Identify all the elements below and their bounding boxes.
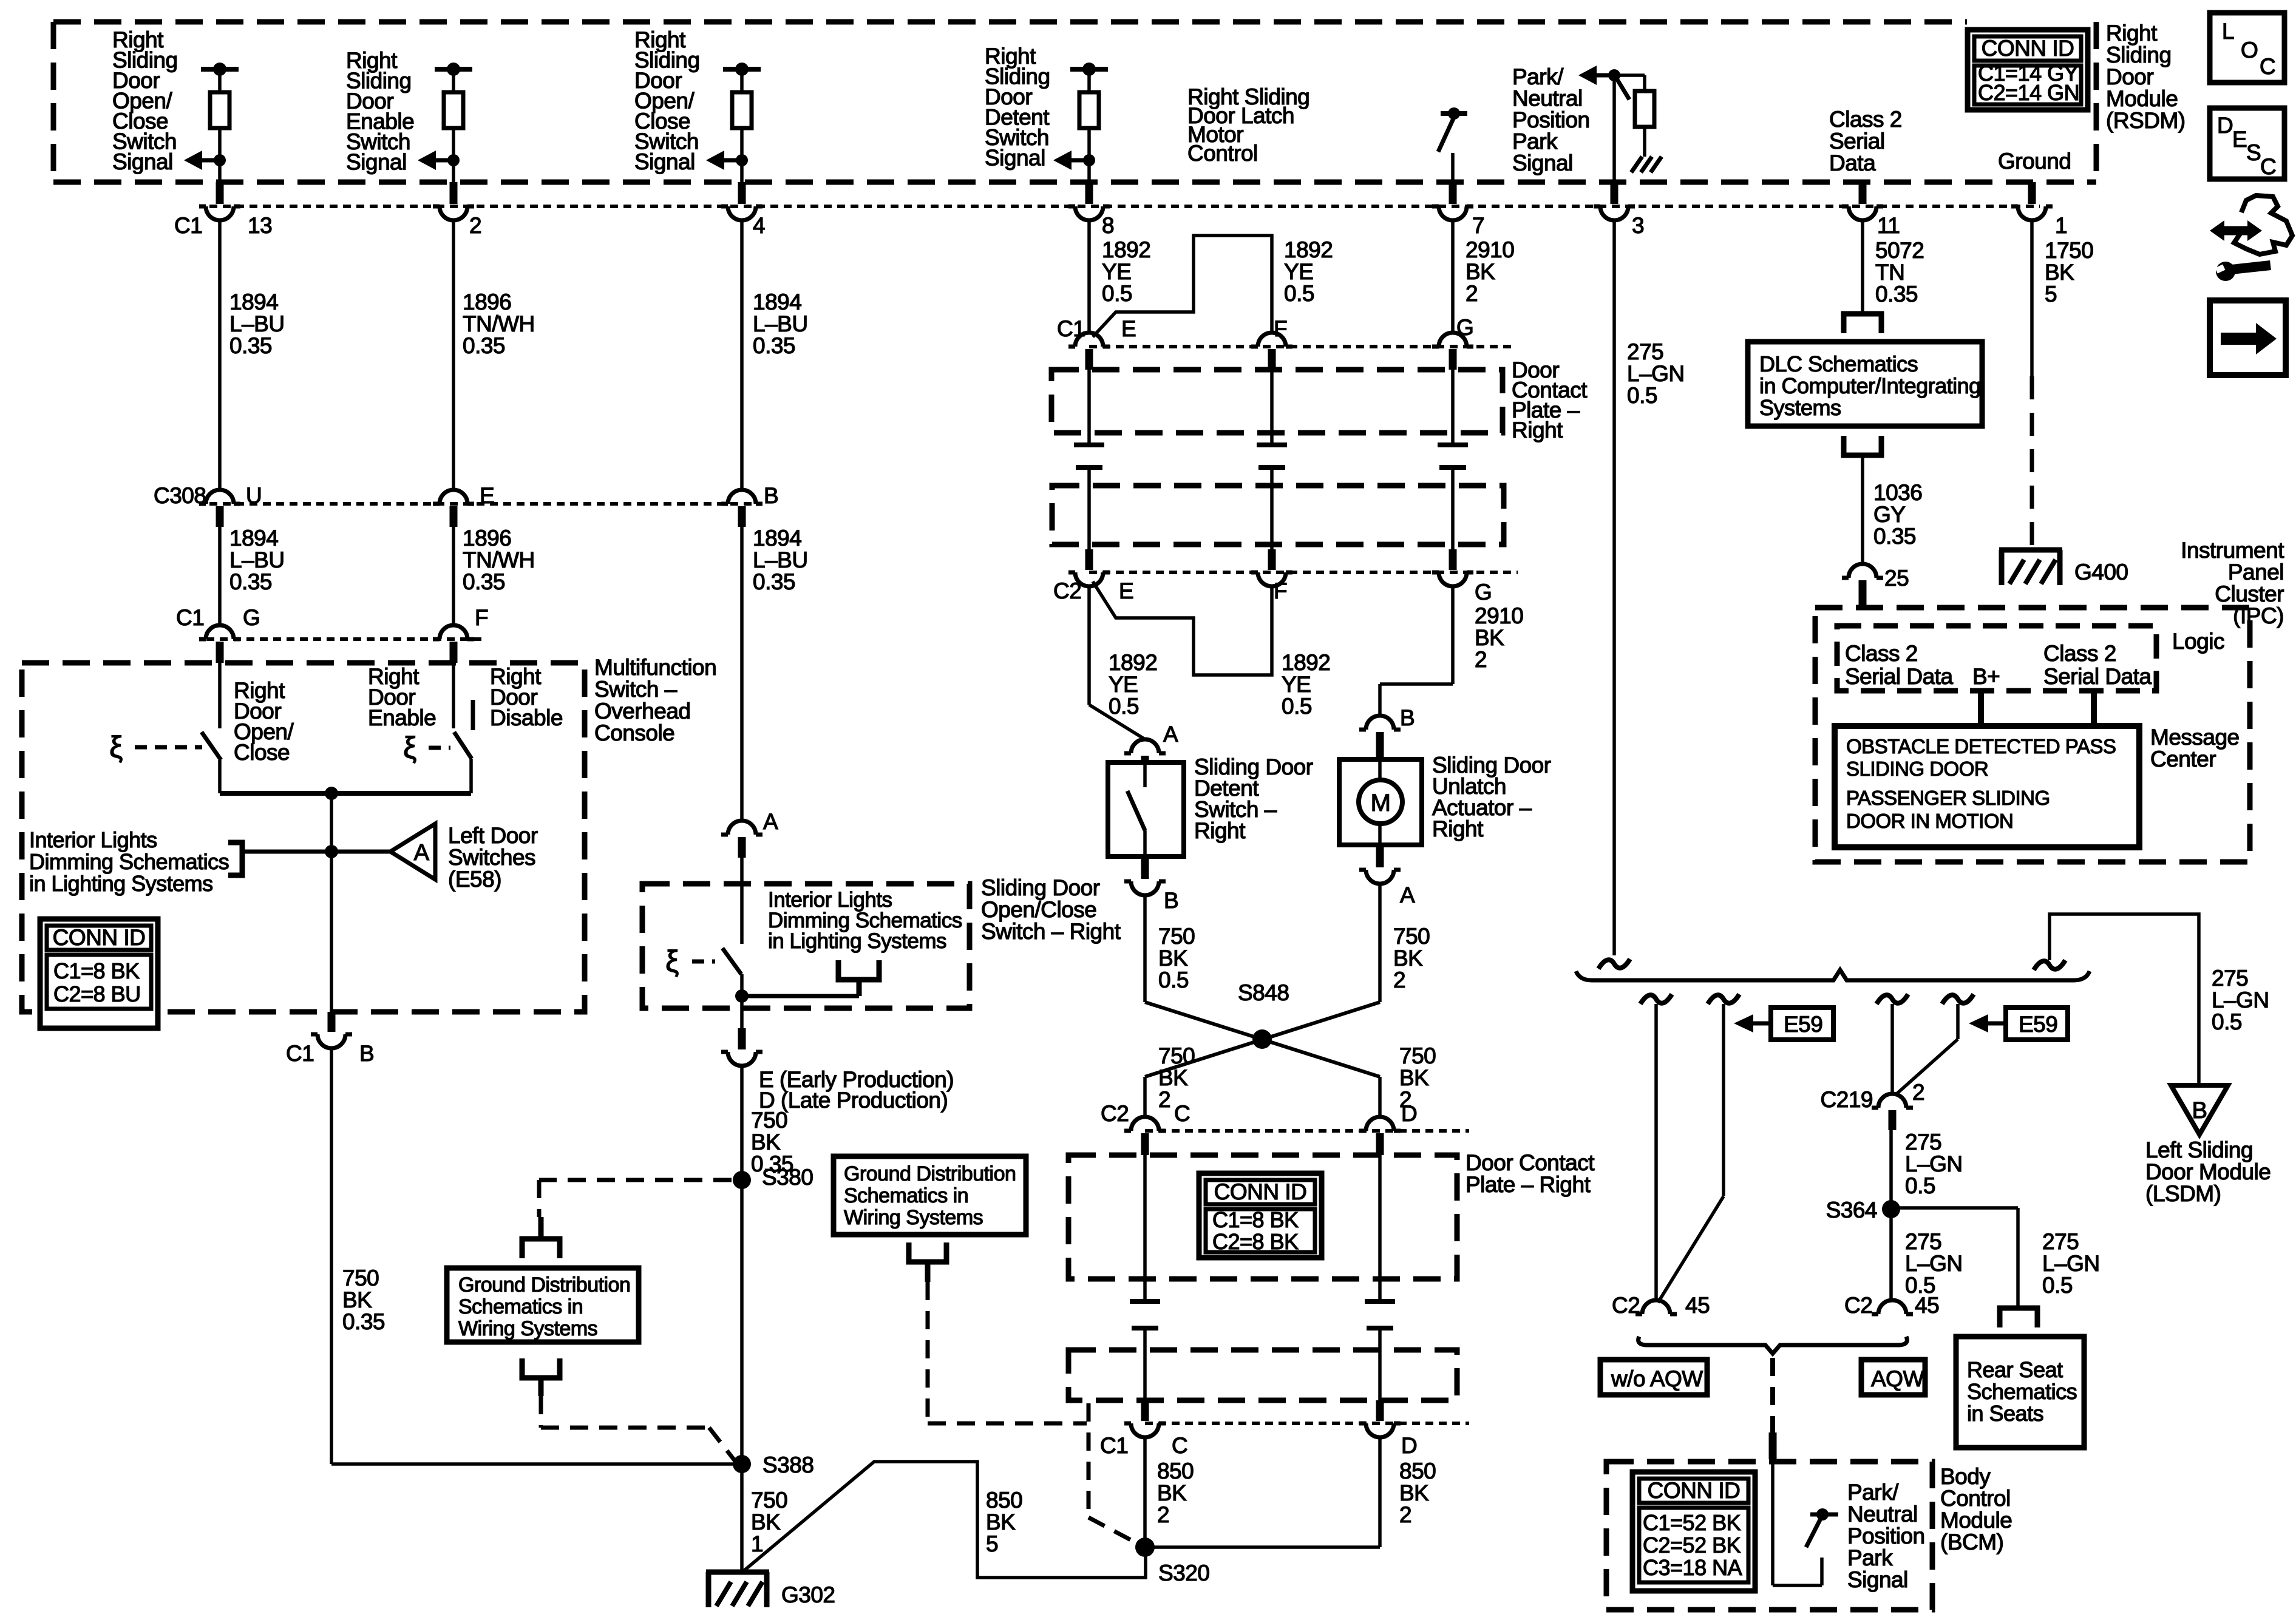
svg-text:U: U — [246, 483, 262, 508]
svg-text:BK: BK — [1466, 259, 1495, 284]
svg-text:1894: 1894 — [753, 526, 801, 551]
svg-text:BK: BK — [1158, 1065, 1188, 1090]
svg-text:L–GN: L–GN — [2212, 988, 2269, 1012]
svg-text:Signal: Signal — [1512, 151, 1573, 175]
svg-text:D: D — [1401, 1433, 1417, 1458]
svg-text:BK: BK — [1157, 1480, 1187, 1505]
svg-text:11: 11 — [1877, 213, 1900, 238]
svg-text:Signal: Signal — [1847, 1567, 1908, 1592]
svg-text:Door Module: Door Module — [2145, 1159, 2271, 1184]
svg-text:2: 2 — [1393, 968, 1405, 992]
svg-text:Close: Close — [234, 740, 290, 765]
svg-text:Instrument: Instrument — [2181, 538, 2284, 563]
svg-text:Right: Right — [1512, 418, 1563, 442]
svg-text:CONN ID: CONN ID — [1982, 36, 2074, 61]
svg-text:Switch – Right: Switch – Right — [981, 919, 1121, 944]
svg-text:BK: BK — [342, 1287, 372, 1312]
svg-text:Rear Seat: Rear Seat — [1967, 1357, 2063, 1382]
svg-text:2: 2 — [1912, 1080, 1924, 1105]
svg-text:S320: S320 — [1158, 1561, 1209, 1585]
svg-text:YE: YE — [1284, 259, 1313, 284]
svg-text:275: 275 — [2042, 1229, 2079, 1254]
svg-text:C308: C308 — [154, 483, 206, 508]
svg-text:Signal: Signal — [346, 150, 407, 175]
svg-text:1892: 1892 — [1109, 650, 1157, 675]
svg-text:A: A — [763, 809, 778, 834]
svg-text:S: S — [2246, 140, 2261, 165]
svg-text:2: 2 — [1157, 1502, 1169, 1527]
svg-text:0.35: 0.35 — [753, 333, 795, 358]
svg-text:Door: Door — [2106, 64, 2153, 89]
svg-text:Class 2: Class 2 — [2043, 641, 2116, 666]
svg-text:in Computer/Integrating: in Computer/Integrating — [1759, 373, 1981, 398]
svg-text:TN/WH: TN/WH — [463, 311, 535, 336]
svg-text:0.5: 0.5 — [1158, 968, 1189, 992]
svg-text:Systems: Systems — [1759, 395, 1841, 420]
svg-text:Logic: Logic — [2172, 629, 2224, 654]
svg-text:5072: 5072 — [1875, 238, 1924, 263]
svg-text:(RSDM): (RSDM) — [2106, 108, 2186, 133]
svg-text:4: 4 — [753, 213, 765, 238]
svg-text:DLC Schematics: DLC Schematics — [1759, 351, 1918, 376]
svg-text:0.35: 0.35 — [463, 333, 505, 358]
svg-text:Cluster: Cluster — [2215, 581, 2284, 606]
svg-text:CONN ID: CONN ID — [53, 925, 146, 950]
svg-text:25: 25 — [1884, 566, 1909, 591]
svg-text:B: B — [764, 483, 778, 508]
svg-text:1896: 1896 — [463, 290, 511, 314]
svg-text:L–BU: L–BU — [229, 547, 285, 572]
svg-text:DOOR IN MOTION: DOOR IN MOTION — [1846, 810, 2013, 832]
svg-text:Control: Control — [1940, 1486, 2011, 1511]
svg-text:G302: G302 — [781, 1582, 835, 1607]
svg-text:0.5: 0.5 — [2042, 1273, 2073, 1298]
svg-text:B+: B+ — [1972, 664, 2000, 689]
svg-text:2: 2 — [1466, 281, 1478, 306]
svg-text:C2=8 BK: C2=8 BK — [1212, 1229, 1299, 1254]
svg-text:(BCM): (BCM) — [1940, 1530, 2003, 1554]
svg-text:PASSENGER SLIDING: PASSENGER SLIDING — [1846, 787, 2050, 809]
svg-text:C1=8 BK: C1=8 BK — [1212, 1207, 1299, 1232]
svg-text:GY: GY — [1873, 502, 1905, 527]
svg-text:Wiring Systems: Wiring Systems — [458, 1317, 597, 1340]
svg-text:F: F — [475, 605, 488, 630]
svg-text:Multifunction: Multifunction — [594, 655, 716, 680]
svg-text:SLIDING DOOR: SLIDING DOOR — [1846, 758, 1988, 780]
svg-text:Interior Lights: Interior Lights — [29, 827, 157, 852]
svg-text:Serial Data: Serial Data — [2043, 664, 2152, 689]
svg-text:G: G — [1475, 580, 1492, 605]
svg-text:in Lighting Systems: in Lighting Systems — [768, 929, 946, 953]
svg-text:E: E — [1121, 316, 1136, 341]
svg-text:1036: 1036 — [1873, 480, 1922, 505]
svg-text:750: 750 — [1393, 924, 1430, 949]
svg-text:D: D — [1401, 1101, 1417, 1126]
svg-text:Ground: Ground — [1998, 149, 2071, 174]
svg-text:Wiring Systems: Wiring Systems — [844, 1206, 983, 1229]
svg-text:0.35: 0.35 — [229, 569, 272, 594]
svg-text:Serial Data: Serial Data — [1845, 664, 1953, 689]
svg-text:C2: C2 — [1101, 1101, 1129, 1126]
svg-text:Right: Right — [1432, 816, 1484, 841]
svg-text:275: 275 — [1627, 339, 1663, 364]
svg-text:BK: BK — [1399, 1065, 1429, 1090]
svg-text:G: G — [243, 605, 260, 630]
svg-text:3: 3 — [1632, 213, 1644, 238]
svg-text:1894: 1894 — [229, 290, 278, 314]
svg-text:CONN ID: CONN ID — [1214, 1179, 1307, 1204]
svg-text:Control: Control — [1187, 141, 1258, 166]
svg-text:ξ: ξ — [665, 944, 679, 978]
svg-text:0.35: 0.35 — [1875, 282, 1918, 307]
svg-text:2: 2 — [1475, 647, 1487, 672]
svg-text:1892: 1892 — [1284, 237, 1333, 262]
svg-text:C2: C2 — [1612, 1293, 1640, 1318]
svg-text:OBSTACLE DETECTED PASS: OBSTACLE DETECTED PASS — [1846, 735, 2116, 758]
svg-text:TN/WH: TN/WH — [463, 547, 535, 572]
svg-text:2: 2 — [469, 213, 481, 238]
svg-text:B: B — [2192, 1098, 2207, 1124]
svg-text:275: 275 — [1905, 1130, 1941, 1154]
svg-text:Switches: Switches — [448, 845, 535, 870]
svg-text:YE: YE — [1282, 672, 1311, 697]
svg-text:C: C — [2260, 54, 2275, 79]
svg-text:CONN ID: CONN ID — [1648, 1478, 1741, 1503]
svg-text:A: A — [1163, 722, 1178, 747]
svg-text:M: M — [1371, 790, 1391, 816]
svg-text:750: 750 — [342, 1266, 379, 1290]
svg-text:BK: BK — [751, 1130, 781, 1154]
svg-text:2910: 2910 — [1466, 237, 1514, 262]
svg-text:S388: S388 — [763, 1453, 813, 1477]
svg-text:Signal: Signal — [634, 149, 695, 174]
svg-text:E59: E59 — [2019, 1012, 2057, 1037]
svg-text:E: E — [1119, 578, 1133, 603]
svg-text:1892: 1892 — [1282, 650, 1330, 675]
svg-text:0.5: 0.5 — [1102, 281, 1132, 306]
svg-text:C1=52 BK: C1=52 BK — [1643, 1510, 1741, 1535]
svg-text:C3=18 NA: C3=18 NA — [1643, 1555, 1742, 1580]
svg-text:Sliding: Sliding — [2106, 42, 2172, 67]
svg-text:Open/Close: Open/Close — [981, 897, 1096, 922]
svg-text:YE: YE — [1102, 259, 1131, 284]
svg-text:Park: Park — [1847, 1545, 1893, 1570]
svg-text:Schematics in: Schematics in — [458, 1295, 583, 1318]
svg-text:Left Sliding: Left Sliding — [2145, 1137, 2253, 1162]
svg-text:C1: C1 — [174, 213, 202, 238]
svg-text:Switch –: Switch – — [594, 677, 678, 702]
svg-text:2910: 2910 — [1475, 603, 1523, 628]
svg-text:L–GN: L–GN — [1905, 1151, 1963, 1176]
svg-text:ξ: ξ — [403, 731, 416, 765]
svg-text:Module: Module — [2106, 86, 2178, 111]
svg-text:C1: C1 — [286, 1041, 314, 1066]
svg-text:1892: 1892 — [1102, 237, 1150, 262]
svg-text:C2: C2 — [1053, 578, 1081, 603]
svg-text:S380: S380 — [762, 1165, 813, 1190]
svg-text:B: B — [1164, 888, 1178, 913]
svg-text:Ground Distribution: Ground Distribution — [458, 1273, 630, 1297]
svg-text:Plate – Right: Plate – Right — [1466, 1172, 1591, 1197]
svg-text:2: 2 — [1399, 1502, 1411, 1527]
svg-text:750: 750 — [1158, 1043, 1195, 1068]
svg-text:G: G — [1456, 315, 1473, 340]
svg-text:275: 275 — [1905, 1229, 1941, 1254]
svg-text:Console: Console — [594, 720, 674, 745]
svg-text:C1: C1 — [1100, 1433, 1128, 1458]
svg-text:C1=8 BK: C1=8 BK — [53, 958, 140, 983]
svg-text:BK: BK — [1158, 946, 1188, 971]
svg-text:in Lighting Systems: in Lighting Systems — [29, 871, 213, 896]
svg-text:F: F — [1274, 578, 1287, 603]
svg-text:(E58): (E58) — [448, 867, 501, 892]
svg-text:BK: BK — [1393, 946, 1423, 971]
svg-text:1: 1 — [751, 1531, 763, 1556]
svg-text:Signal: Signal — [112, 149, 173, 174]
svg-text:E59: E59 — [1784, 1012, 1822, 1037]
svg-text:in Seats: in Seats — [1967, 1401, 2043, 1426]
svg-text:0.5: 0.5 — [1627, 383, 1657, 408]
svg-text:Ground Distribution: Ground Distribution — [844, 1162, 1016, 1185]
svg-text:YE: YE — [1109, 672, 1138, 697]
svg-text:(LSDM): (LSDM) — [2145, 1181, 2221, 1206]
svg-text:Center: Center — [2150, 747, 2216, 771]
svg-text:7: 7 — [1472, 213, 1484, 238]
svg-text:Dimming Schematics: Dimming Schematics — [29, 849, 229, 874]
svg-text:Enable: Enable — [368, 705, 436, 730]
svg-text:w/o AQW: w/o AQW — [1611, 1366, 1703, 1391]
svg-text:750: 750 — [1399, 1043, 1436, 1068]
svg-text:C2=52 BK: C2=52 BK — [1643, 1533, 1741, 1558]
svg-text:Class 2: Class 2 — [1829, 107, 1902, 132]
svg-text:C2: C2 — [1844, 1293, 1872, 1318]
svg-text:750: 750 — [1158, 924, 1195, 949]
svg-text:Signal: Signal — [985, 146, 1045, 171]
svg-text:750: 750 — [751, 1108, 787, 1133]
svg-text:C: C — [1174, 1101, 1190, 1126]
svg-text:Class 2: Class 2 — [1845, 641, 1918, 666]
svg-text:C219: C219 — [1821, 1087, 1873, 1112]
svg-text:S848: S848 — [1238, 980, 1289, 1005]
svg-text:1: 1 — [2055, 213, 2067, 238]
svg-text:850: 850 — [1157, 1459, 1194, 1483]
svg-text:G400: G400 — [2074, 560, 2128, 585]
svg-text:Message: Message — [2150, 725, 2240, 750]
svg-text:O: O — [2241, 38, 2258, 63]
svg-text:Park/: Park/ — [1847, 1480, 1899, 1505]
svg-text:Data: Data — [1829, 151, 1876, 175]
svg-text:BK: BK — [2045, 260, 2074, 285]
svg-text:Schematics in: Schematics in — [844, 1184, 968, 1207]
svg-text:L–BU: L–BU — [753, 547, 808, 572]
svg-text:1750: 1750 — [2045, 238, 2093, 263]
svg-text:C: C — [2260, 154, 2276, 179]
svg-text:S364: S364 — [1826, 1198, 1877, 1222]
svg-text:Right: Right — [1194, 818, 1246, 843]
svg-text:5: 5 — [986, 1531, 998, 1556]
svg-text:A: A — [414, 840, 430, 866]
svg-text:Disable: Disable — [490, 705, 563, 730]
svg-text:2: 2 — [1158, 1087, 1170, 1112]
svg-text:L–BU: L–BU — [753, 311, 808, 336]
svg-text:0.35: 0.35 — [229, 333, 272, 358]
svg-text:45: 45 — [1685, 1293, 1710, 1318]
svg-text:L–GN: L–GN — [1627, 361, 1685, 386]
svg-text:C1: C1 — [1057, 316, 1085, 341]
svg-text:TN: TN — [1875, 260, 1904, 285]
svg-text:1896: 1896 — [463, 526, 511, 551]
svg-text:E: E — [480, 483, 494, 508]
svg-text:Module: Module — [1940, 1508, 2012, 1533]
svg-text:L–BU: L–BU — [229, 311, 285, 336]
svg-text:Schematics: Schematics — [1967, 1379, 2077, 1404]
svg-text:ξ: ξ — [109, 730, 123, 764]
svg-text:F: F — [1274, 316, 1287, 341]
svg-text:0.5: 0.5 — [1905, 1173, 1935, 1198]
svg-text:Neutral: Neutral — [1847, 1502, 1918, 1527]
svg-text:Right: Right — [2106, 21, 2158, 46]
svg-text:C2=8 BU: C2=8 BU — [53, 981, 141, 1006]
svg-text:D: D — [2217, 113, 2233, 138]
svg-text:B: B — [359, 1041, 374, 1066]
svg-text:0.35: 0.35 — [342, 1309, 385, 1334]
svg-text:AQW: AQW — [1871, 1366, 1924, 1391]
svg-text:L: L — [2222, 19, 2234, 44]
svg-text:5: 5 — [2045, 282, 2057, 307]
svg-text:B: B — [1400, 705, 1415, 730]
svg-text:Panel: Panel — [2228, 560, 2284, 585]
svg-text:C: C — [1172, 1433, 1187, 1458]
svg-text:Overhead: Overhead — [594, 699, 691, 724]
svg-text:275: 275 — [2212, 966, 2248, 991]
svg-text:0.5: 0.5 — [1284, 281, 1314, 306]
svg-text:0.35: 0.35 — [1873, 524, 1916, 549]
svg-text:750: 750 — [751, 1488, 787, 1513]
svg-text:1894: 1894 — [229, 526, 278, 551]
svg-text:BK: BK — [1475, 625, 1504, 650]
svg-text:C2=14 GN: C2=14 GN — [1978, 80, 2079, 105]
svg-text:0.35: 0.35 — [753, 569, 795, 594]
svg-text:1894: 1894 — [753, 290, 801, 314]
svg-text:Door Contact: Door Contact — [1466, 1150, 1595, 1175]
svg-text:0.5: 0.5 — [2212, 1009, 2242, 1034]
svg-text:Serial: Serial — [1829, 129, 1885, 154]
svg-text:0.5: 0.5 — [1109, 694, 1139, 719]
svg-text:E: E — [2232, 127, 2247, 152]
svg-text:8: 8 — [1102, 213, 1114, 238]
svg-text:0.5: 0.5 — [1282, 694, 1312, 719]
svg-text:A: A — [1400, 883, 1415, 907]
svg-text:Body: Body — [1940, 1464, 1991, 1489]
svg-text:Position: Position — [1847, 1524, 1925, 1548]
svg-text:L–GN: L–GN — [1905, 1251, 1963, 1276]
svg-text:13: 13 — [248, 213, 272, 238]
svg-text:Left Door: Left Door — [448, 823, 538, 848]
svg-text:L–GN: L–GN — [2042, 1251, 2100, 1276]
svg-text:Sliding Door: Sliding Door — [981, 875, 1100, 900]
svg-text:C1: C1 — [176, 605, 204, 630]
svg-text:0.5: 0.5 — [1905, 1273, 1935, 1298]
svg-text:BK: BK — [1399, 1480, 1429, 1505]
svg-text:850: 850 — [1399, 1459, 1436, 1483]
svg-text:850: 850 — [986, 1488, 1022, 1513]
svg-text:BK: BK — [751, 1510, 781, 1534]
svg-text:BK: BK — [986, 1510, 1016, 1534]
svg-text:0.35: 0.35 — [463, 569, 505, 594]
